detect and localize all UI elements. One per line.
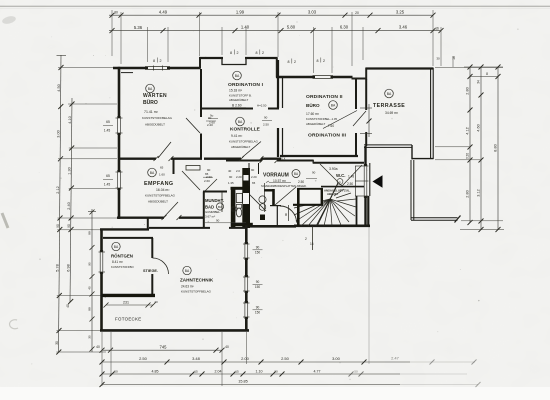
svg-text:1.40: 1.40 <box>241 25 250 30</box>
svg-text:2.20: 2.20 <box>251 175 257 179</box>
wall kontrolle bottom <box>204 157 281 159</box>
svg-text:3.46: 3.46 <box>399 24 408 29</box>
svg-text:KUNSTSTOFFBO: KUNSTSTOFFBO <box>111 265 134 269</box>
window top A <box>145 66 170 71</box>
svg-text:231: 231 <box>123 301 129 305</box>
door ordination II swing <box>323 111 357 129</box>
patio L-wall horizontal double <box>411 218 458 221</box>
svg-text:2.47: 2.47 <box>391 355 400 360</box>
room warten buero marker <box>146 84 155 93</box>
room zahntechnik labels <box>180 278 214 294</box>
svg-text:30: 30 <box>88 335 92 339</box>
window labels 90/150 no.2 <box>255 280 261 289</box>
terrasse step wall <box>412 145 434 159</box>
svg-text:65: 65 <box>106 174 110 178</box>
wall warten right <box>200 69 202 159</box>
svg-text:745: 745 <box>160 344 168 349</box>
svg-text:3.20: 3.20 <box>465 153 469 159</box>
vorraum dim arrow <box>266 181 269 183</box>
svg-text:BÜRO: BÜRO <box>143 99 158 106</box>
entrance door line <box>369 163 371 196</box>
bottom extension lines <box>102 227 369 386</box>
svg-text:30: 30 <box>114 11 118 15</box>
svg-text:30: 30 <box>436 57 440 61</box>
wall band bottom mid <box>149 227 247 229</box>
wall exterior left <box>118 67 121 219</box>
stair down label <box>305 237 314 246</box>
room empfang marker <box>148 168 157 177</box>
svg-text:4.85: 4.85 <box>152 369 159 373</box>
left chain ticks <box>56 65 74 355</box>
block chain ticks <box>90 210 95 352</box>
door dim 65/2.60 empfang <box>204 172 210 183</box>
right chain ticks <box>468 65 501 233</box>
plumbing wall top bar <box>231 187 251 190</box>
room wc labels <box>298 167 354 186</box>
top dimension chain row 2 <box>109 30 441 32</box>
door warten bottom swing <box>158 142 171 158</box>
svg-text:ABGEDÜBELT: ABGEDÜBELT <box>306 122 325 126</box>
svg-text:BAD: BAD <box>205 205 214 210</box>
text ansaugluft <box>324 188 350 196</box>
top chain row1 labels <box>114 9 405 15</box>
svg-text:MUNDHY.: MUNDHY. <box>205 198 224 203</box>
wall warten bottom <box>118 157 202 159</box>
door jamb wall left of arc <box>270 205 281 207</box>
chain A labels <box>96 344 229 349</box>
room vorraum title <box>261 173 307 189</box>
window block right 1 <box>243 242 250 260</box>
wall empfang bottom <box>117 216 204 218</box>
svg-text:TERRASSE: TERRASSE <box>373 103 405 109</box>
wall mundhy top <box>203 191 227 193</box>
svg-text:1.99: 1.99 <box>236 9 245 14</box>
svg-text:2.50: 2.50 <box>263 123 269 127</box>
roentgen dim labels <box>123 300 158 304</box>
room warten buero title <box>142 93 173 127</box>
small dark fixture <box>260 215 265 221</box>
landing left edge <box>276 205 278 226</box>
svg-text:B 2.60: B 2.60 <box>232 104 242 108</box>
door dim line vorraum <box>288 205 290 221</box>
svg-text:34.69 m²: 34.69 m² <box>385 111 399 115</box>
svg-text:7.60: 7.60 <box>328 124 334 128</box>
svg-text:2.20: 2.20 <box>236 175 242 179</box>
svg-text:8: 8 <box>486 72 488 76</box>
svg-text:34: 34 <box>476 80 480 84</box>
stair landing box <box>293 188 323 226</box>
svg-text:4.60: 4.60 <box>476 124 480 131</box>
svg-text:6.98: 6.98 <box>66 264 70 271</box>
bottom chain D total <box>102 384 478 386</box>
svg-text:40: 40 <box>96 345 100 349</box>
top chain row1 ticks <box>110 13 436 18</box>
wall terrasse top corner riser <box>365 68 367 80</box>
scan streak top <box>0 5 550 7</box>
bottom wall under landing <box>246 225 296 228</box>
top chain row2 labels <box>134 24 439 30</box>
svg-text:3.48: 3.48 <box>192 356 201 361</box>
svg-text:90: 90 <box>251 168 255 172</box>
frac line mid <box>208 118 218 120</box>
svg-text:2.50: 2.50 <box>347 182 353 186</box>
svg-text:KONTROLLE: KONTROLLE <box>230 127 261 133</box>
door dim 90/2.20 warten <box>207 116 213 127</box>
svg-text:150: 150 <box>255 285 261 289</box>
room ordination II title <box>306 94 343 126</box>
svg-text:ORDINATION I: ORDINATION I <box>228 82 264 88</box>
terrasse top wall <box>366 67 434 69</box>
svg-text:6.30: 6.30 <box>340 25 349 30</box>
svg-text:2.50: 2.50 <box>139 356 148 361</box>
svg-text:40: 40 <box>66 304 70 308</box>
door empfang bottom swing <box>164 202 178 217</box>
svg-text:90: 90 <box>256 306 260 310</box>
roentgen room top wall <box>103 237 153 239</box>
window block right 3 <box>243 301 250 319</box>
window width labels 8/2 above top wall <box>153 51 325 64</box>
window lower block left <box>99 250 106 274</box>
wall step join lower block <box>147 218 149 230</box>
circled mark a <box>259 196 266 203</box>
door swing vorraum left <box>247 192 266 211</box>
svg-text:50: 50 <box>354 370 358 374</box>
chain B labels <box>139 355 400 361</box>
vorraum L dark wall vertical <box>272 189 275 206</box>
svg-text:150: 150 <box>255 251 261 255</box>
patio L-wall vertical double <box>411 160 414 220</box>
roentgen room right wall <box>151 238 153 295</box>
svg-text:8: 8 <box>153 59 155 63</box>
svg-text:90: 90 <box>256 246 260 250</box>
svg-text:40: 40 <box>228 169 232 173</box>
top chain row2 ticks <box>110 28 444 33</box>
svg-text:150: 150 <box>255 311 261 315</box>
door empfang-warten swing <box>182 171 200 190</box>
svg-text:ORDINATION II: ORDINATION II <box>306 94 343 100</box>
window left lower <box>116 170 123 190</box>
bottom chain B <box>102 361 475 363</box>
dust speckles <box>31 21 518 380</box>
wall divider ordI/ordII column <box>278 60 283 157</box>
lower block inner dim chain <box>91 209 93 352</box>
window labels 90/150 no.1 <box>255 246 261 255</box>
room vorraum marker <box>292 170 300 178</box>
room ordination I title <box>228 82 267 108</box>
svg-text:2: 2 <box>323 59 325 63</box>
svg-text:20: 20 <box>355 11 359 15</box>
left window frac line upper <box>103 124 113 126</box>
wc frac line <box>306 178 317 180</box>
wall lower block left <box>100 229 103 332</box>
wall stair bottom exterior <box>294 225 370 228</box>
smudge c-mark <box>10 320 18 329</box>
wall top facade segment A <box>113 67 201 69</box>
window top C <box>313 76 334 79</box>
svg-text:2.60: 2.60 <box>209 121 215 125</box>
door dim 65 above <box>159 166 165 177</box>
room mundhy labels <box>205 198 224 219</box>
svg-text:16: 16 <box>310 242 314 246</box>
chain B ticks <box>100 360 477 365</box>
smudge top-left <box>1 15 16 25</box>
svg-text:2.40: 2.40 <box>67 202 71 209</box>
wc pan fixture <box>236 208 241 217</box>
svg-text:BA: BA <box>150 171 155 175</box>
roentgen dim ticks <box>104 303 156 308</box>
svg-text:9o: 9o <box>210 114 214 118</box>
shower fixture <box>236 194 242 203</box>
left window labels 65/1.45 upper <box>104 120 111 133</box>
window label divider ticks <box>157 50 320 64</box>
svg-text:5.36: 5.36 <box>134 25 143 30</box>
stair down line <box>312 226 314 250</box>
top dimension chain row 1 <box>109 14 433 16</box>
svg-text:1.35: 1.35 <box>228 181 234 185</box>
wall lower block bottom <box>100 329 249 332</box>
svg-text:2: 2 <box>160 59 162 63</box>
stair section diagonal <box>317 183 338 226</box>
room zahntechnik marker <box>183 266 191 274</box>
svg-text:15.18 m²: 15.18 m² <box>229 89 243 93</box>
svg-text:16: 16 <box>435 27 439 31</box>
svg-text:3.00: 3.00 <box>57 130 61 137</box>
wall stair right exterior <box>367 196 369 226</box>
svg-text:9.41 m²: 9.41 m² <box>231 134 243 138</box>
stair winder treads fan <box>294 189 356 226</box>
terrasse left wall <box>365 79 367 146</box>
svg-text:2: 2 <box>305 237 307 241</box>
svg-text:KUNSTSTOFFBELAG: KUNSTSTOFFBELAG <box>145 194 176 198</box>
window w.c. right double <box>355 164 369 198</box>
svg-text:3.00: 3.00 <box>332 356 341 361</box>
room ordination II marker <box>329 101 338 110</box>
svg-text:3.12: 3.12 <box>476 189 480 196</box>
vorraum dim underline <box>269 182 291 184</box>
wall top facade segment B <box>199 57 278 59</box>
svg-text:15.85: 15.85 <box>238 380 248 384</box>
svg-text:ZAHNTECHNIK: ZAHNTECHNIK <box>180 278 214 283</box>
svg-text:65: 65 <box>160 166 164 170</box>
svg-text:40: 40 <box>225 345 229 349</box>
svg-text:90: 90 <box>216 219 220 223</box>
door w.c. swing diagonals <box>320 164 362 186</box>
svg-text:90: 90 <box>284 212 288 216</box>
left window labels 65/1.45 lower <box>104 174 111 187</box>
svg-text:2: 2 <box>237 51 239 55</box>
svg-text:1.10: 1.10 <box>256 369 263 373</box>
svg-text:71.41 m²: 71.41 m² <box>144 110 159 114</box>
bottom dimension chain A 745 <box>102 349 222 351</box>
svg-text:16.04 m²: 16.04 m² <box>156 188 170 192</box>
wall top facade segment C <box>276 76 353 78</box>
svg-text:30: 30 <box>55 341 59 345</box>
svg-text:16: 16 <box>452 56 456 60</box>
door jamb ticks kontrolle bottom <box>239 156 264 161</box>
svg-text:1.48: 1.48 <box>348 175 354 179</box>
chain A ticks <box>100 348 225 353</box>
door swing vorraum right <box>275 187 296 205</box>
chain C ticks <box>100 372 364 377</box>
svg-text:x x: x x <box>281 157 286 161</box>
svg-text:65: 65 <box>106 120 110 124</box>
window block right 2 <box>243 275 250 293</box>
svg-text:1.30: 1.30 <box>67 167 71 174</box>
terrasse bottom wall double <box>364 145 413 148</box>
svg-text:50: 50 <box>114 369 118 373</box>
svg-text:STIEGE.: STIEGE. <box>143 269 158 273</box>
svg-text:40: 40 <box>154 300 158 304</box>
room terrasse marker <box>385 89 394 98</box>
wall ordination II right <box>355 79 357 157</box>
svg-text:BÜRO: BÜRO <box>306 102 320 108</box>
room ordination I marker <box>233 71 242 80</box>
svg-text:RÖNTGEN: RÖNTGEN <box>111 254 133 259</box>
svg-text:2.00: 2.00 <box>241 356 250 361</box>
chain C labels <box>114 369 358 373</box>
svg-text:BA: BA <box>235 74 240 78</box>
svg-text:3.90a: 3.90a <box>329 167 338 171</box>
vorraum inner line <box>264 183 266 212</box>
svg-text:ORDINATION III: ORDINATION III <box>308 133 347 139</box>
frac line kontrolle right <box>262 120 272 122</box>
svg-text:2.04: 2.04 <box>215 369 222 373</box>
svg-text:15: 15 <box>194 370 198 374</box>
svg-text:BA: BA <box>148 87 153 91</box>
block chain labels <box>88 231 92 339</box>
wc circled 1 <box>337 179 343 185</box>
wall ordination II/III bottom <box>280 155 358 157</box>
svg-text:W.C.: W.C. <box>336 173 346 178</box>
svg-text:BA: BA <box>238 120 243 124</box>
dim 90/2.50 mid labels <box>209 114 215 125</box>
wall w.c. top <box>313 162 364 164</box>
door jamb ticks warten bottom <box>154 156 174 161</box>
svg-text:ABGEDÜBELT: ABGEDÜBELT <box>148 200 168 204</box>
wall inner ledge top-left <box>121 72 133 74</box>
svg-text:2.80: 2.80 <box>465 87 469 94</box>
svg-text:KUNSTSTOFF B.: KUNSTSTOFF B. <box>229 94 252 98</box>
roentgen room bottom dark wall <box>103 294 156 297</box>
svg-text:4.12: 4.12 <box>465 127 469 134</box>
svg-text:8: 8 <box>288 60 290 64</box>
svg-text:3.25: 3.25 <box>396 9 405 14</box>
svg-text:2.60: 2.60 <box>206 175 212 179</box>
svg-text:90: 90 <box>88 262 92 266</box>
bottom white margin <box>0 387 550 400</box>
svg-text:KUNSTSTOFFBELAG: KUNSTSTOFFBELAG <box>142 116 173 120</box>
frac line 3 <box>253 309 263 311</box>
mundhy dim line <box>204 222 246 224</box>
door dim 90/2.50 kontrolle right <box>263 116 269 127</box>
stair right inner wall <box>356 196 358 225</box>
door mundhy swing <box>205 179 217 191</box>
door kontrolle bottom swing <box>242 142 261 158</box>
svg-text:FOTOECKE: FOTOECKE <box>115 317 141 322</box>
svg-text:2.60: 2.60 <box>204 179 210 183</box>
svg-text:15: 15 <box>235 370 239 374</box>
left dimension chain 1 <box>59 55 73 352</box>
svg-text:EMPFANG: EMPFANG <box>144 181 173 187</box>
right dimension chains <box>460 67 504 230</box>
svg-text:90: 90 <box>312 171 316 175</box>
svg-text:KUNSTSTOFFBELAG: KUNSTSTOFFBELAG <box>229 140 259 144</box>
svg-text:1.45: 1.45 <box>104 129 111 133</box>
svg-text:2.50: 2.50 <box>298 180 304 184</box>
wc cistern fixture <box>236 205 241 209</box>
svg-text:KUNSTSTOFFBELAG: KUNSTSTOFFBELAG <box>181 290 212 294</box>
frac line 2 <box>253 283 263 285</box>
window left upper <box>116 116 123 135</box>
svg-text:5.80: 5.80 <box>287 25 296 30</box>
svg-text:90: 90 <box>264 116 268 120</box>
svg-text:2: 2 <box>262 51 264 55</box>
svg-text:90: 90 <box>67 224 71 228</box>
door dim 90/2.60 kontrolle left <box>206 168 212 179</box>
door vorraum arc <box>280 206 297 223</box>
svg-text:4.50: 4.50 <box>57 84 61 91</box>
room roentgen marker <box>112 242 120 250</box>
ordination I underline <box>231 107 246 109</box>
wall mundhy left <box>203 192 205 229</box>
left window frac line lower <box>103 178 113 180</box>
svg-text:5.78: 5.78 <box>55 264 59 271</box>
window labels 90/150 no.3 <box>255 306 261 315</box>
door roentgen arc <box>153 258 169 274</box>
sill rect below warten wall <box>186 166 200 171</box>
svg-text:30: 30 <box>274 370 278 374</box>
room terrasse title <box>373 103 405 115</box>
svg-text:2: 2 <box>294 60 296 64</box>
wall empfang nib <box>173 159 175 174</box>
left extension lines <box>56 68 117 353</box>
vorraum L dark wall horizontal <box>264 189 275 191</box>
svg-text:ABGEDÜBELT: ABGEDÜBELT <box>231 145 250 149</box>
svg-text:2.12: 2.12 <box>56 186 60 193</box>
frac line 1 <box>253 249 263 251</box>
svg-text:90: 90 <box>207 168 211 172</box>
door dim frac warten <box>206 120 216 122</box>
wall exterior right of w.c. <box>364 146 366 226</box>
svg-text:GUMMIBEL.: GUMMIBEL. <box>205 210 221 214</box>
svg-text:8: 8 <box>230 51 232 55</box>
svg-text:65: 65 <box>252 181 256 185</box>
wall vorraum top <box>226 160 314 162</box>
svg-text:H=2.50: H=2.50 <box>257 104 267 108</box>
door terrasse swing <box>353 111 366 126</box>
room kontrolle marker <box>236 117 245 126</box>
wall step down right of ordination I <box>276 58 278 78</box>
svg-text:WARTEN: WARTEN <box>143 93 167 99</box>
wall lower block top-left <box>100 228 149 230</box>
corridor mini walls <box>249 163 259 186</box>
right chain labels <box>452 56 497 198</box>
wall w.c. top join <box>312 160 314 164</box>
svg-text:24.63 m²: 24.63 m² <box>181 285 194 289</box>
bottom chain C <box>102 373 467 375</box>
wall jog to terrasse <box>352 78 368 80</box>
svg-text:17.60 m²: 17.60 m² <box>306 112 320 116</box>
svg-text:40: 40 <box>88 286 92 290</box>
door warten right swing <box>186 118 200 133</box>
svg-text:SCHWARZBODENPLATTEN ABGED.: SCHWARZBODENPLATTEN ABGED. <box>261 184 307 188</box>
plumbing wall white slot wc <box>243 193 249 204</box>
svg-text:2.50: 2.50 <box>281 356 290 361</box>
svg-text:3.03: 3.03 <box>308 9 317 14</box>
terrasse right wall double <box>431 68 434 159</box>
chain D ticks <box>100 382 481 387</box>
block chain top tick cross <box>88 211 96 213</box>
